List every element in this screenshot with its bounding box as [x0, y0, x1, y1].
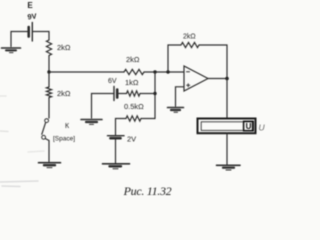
battery 6V	[114, 87, 117, 101]
wire battery E to node	[33, 32, 49, 41]
resistor R6 2kΩ (feedback)	[181, 42, 199, 47]
svg-text:0.5kΩ: 0.5kΩ	[124, 102, 144, 111]
svg-text:9V: 9V	[27, 12, 37, 22]
svg-text:2kΩ: 2kΩ	[126, 55, 140, 64]
wire op-amp output	[208, 78, 227, 80]
wire feedback right vertical	[199, 45, 227, 79]
wire node A down to R2	[48, 72, 50, 87]
svg-text:U: U	[246, 122, 252, 131]
wire R5 to node D	[140, 93, 155, 95]
resistor R3 2kΩ (horizontal, input)	[124, 69, 144, 74]
switch K [Space]	[42, 119, 49, 141]
op-amp U1	[184, 66, 208, 91]
voltmeter U	[198, 119, 256, 134]
svg-text:[Space]: [Space]	[53, 136, 75, 143]
op-amp minus marker	[187, 71, 190, 73]
ground (2V battery)	[103, 164, 130, 169]
wire 2V battery to R4	[116, 119, 127, 136]
wire output down to voltmeter	[226, 79, 228, 119]
node D junction	[153, 92, 156, 95]
wire R4 to bus	[141, 118, 155, 120]
wire switch to ground	[48, 141, 50, 162]
ground (switch)	[39, 163, 61, 168]
svg-text:2kΩ: 2kΩ	[57, 89, 71, 98]
wire feedback left vertical	[168, 45, 181, 72]
wire node B vertical bus	[154, 72, 156, 119]
wire R2 to switch	[48, 98, 50, 119]
scan smudge bottom left	[0, 96, 44, 187]
wire voltmeter to ground	[226, 133, 228, 164]
node A junction	[47, 70, 50, 73]
wire node A to op-amp (bus y=72)	[49, 71, 124, 73]
resistor R1 2kΩ (vertical)	[46, 40, 51, 56]
wire 6V battery left to ground	[92, 94, 114, 119]
ground (battery E)	[2, 48, 21, 53]
svg-text:2V: 2V	[127, 135, 136, 144]
svg-text:2kΩ: 2kΩ	[57, 43, 71, 52]
wire 2V battery to ground	[115, 139, 117, 162]
svg-text:6V: 6V	[108, 78, 117, 85]
ground (op-amp + input)	[168, 108, 184, 113]
svg-text:Рис. 11.32: Рис. 11.32	[123, 184, 172, 198]
svg-text:1kΩ: 1kΩ	[125, 78, 139, 87]
ground (voltmeter)	[217, 165, 241, 170]
wire op-amp plus input to ground	[176, 87, 185, 107]
node B junction	[153, 70, 156, 73]
resistor R2 2kΩ (vertical)	[46, 87, 51, 98]
wire R3 to op-amp input	[144, 71, 184, 73]
op-amp plus marker	[187, 84, 190, 87]
node E junction (output)	[225, 77, 229, 81]
resistor R4 0.5kΩ (horizontal)	[126, 116, 141, 121]
svg-text:2kΩ: 2kΩ	[183, 34, 196, 41]
svg-text:U: U	[259, 123, 266, 133]
svg-text:E: E	[27, 1, 33, 10]
wire R1 to node A	[48, 56, 50, 73]
battery 2V	[108, 136, 125, 139]
battery E 9V	[29, 23, 33, 42]
wire 6V battery to R5	[118, 93, 127, 95]
wire battery E left lead	[11, 32, 29, 47]
node C junction (feedback tap)	[166, 70, 169, 73]
resistor R5 1kΩ (horizontal)	[127, 91, 141, 96]
ground (6V battery)	[81, 120, 102, 125]
